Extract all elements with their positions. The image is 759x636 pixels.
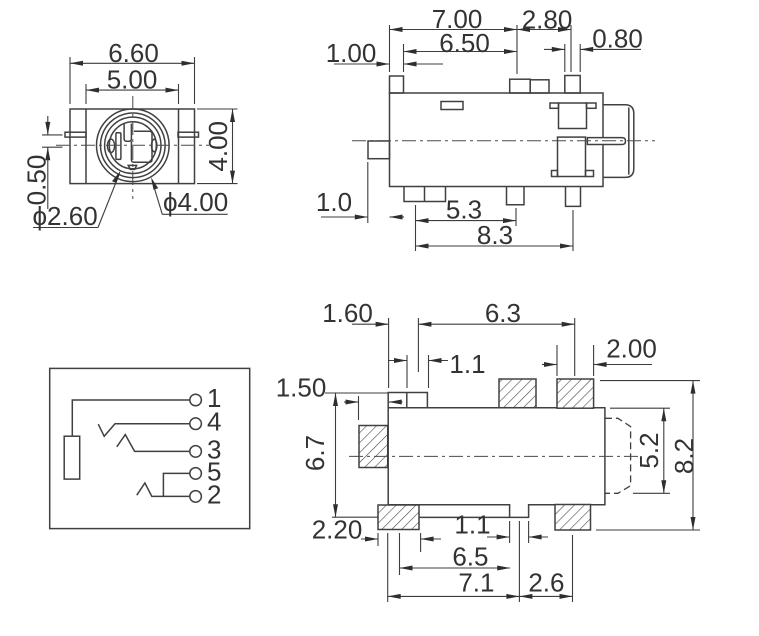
lower component left ear bbox=[552, 171, 558, 177]
dimension 6.5 bbox=[400, 533, 511, 575]
svg-text:ϕ2.60: ϕ2.60 bbox=[33, 201, 98, 231]
svg-text:6.50: 6.50 bbox=[439, 28, 490, 58]
svg-text:8.2: 8.2 bbox=[669, 438, 699, 474]
bottom right pad (hatched) bbox=[555, 505, 591, 531]
svg-text:2: 2 bbox=[207, 479, 221, 509]
pin 2 circle bbox=[190, 491, 202, 503]
svg-text:6.60: 6.60 bbox=[108, 38, 159, 68]
pin slot bbox=[587, 138, 625, 145]
dimension 8.3 bbox=[416, 210, 574, 251]
left protruding tab bbox=[368, 141, 390, 159]
top pad 1 (hatched) bbox=[499, 379, 536, 408]
inner top slot bbox=[124, 124, 131, 142]
inner left oval bbox=[107, 139, 114, 152]
svg-text:2.80: 2.80 bbox=[522, 5, 573, 35]
svg-text:4.00: 4.00 bbox=[203, 121, 233, 172]
dimension 5.00 bbox=[86, 65, 179, 104]
svg-text:6.3: 6.3 bbox=[485, 298, 521, 328]
dimension 2.80 bbox=[517, 5, 572, 73]
dimension 0.50 (vertical left) bbox=[22, 116, 63, 209]
inner small rectangle bbox=[441, 102, 463, 110]
bottom left pad (hatched) bbox=[378, 505, 419, 530]
svg-text:1.1: 1.1 bbox=[449, 349, 485, 379]
step inner horizontal bbox=[388, 407, 427, 409]
upper component right ear bbox=[587, 103, 597, 108]
svg-text:ϕ4.00: ϕ4.00 bbox=[163, 187, 228, 217]
jack circle 2 bbox=[101, 113, 166, 178]
svg-text:0.50: 0.50 bbox=[22, 155, 52, 206]
hidden barrel (dashed) bbox=[605, 418, 631, 493]
front view body rectangle bbox=[70, 109, 195, 184]
dimension 6.50 bbox=[404, 28, 518, 72]
schematic box bbox=[50, 368, 250, 528]
svg-text:1.00: 1.00 bbox=[326, 38, 377, 68]
inner left contact plate bbox=[116, 133, 121, 160]
wire pin4 with switch bbox=[98, 424, 190, 437]
side view centerline bbox=[349, 455, 638, 457]
wire pin3 with switch bbox=[117, 435, 190, 452]
front right side tab bbox=[178, 132, 199, 137]
top tab B bbox=[530, 80, 549, 93]
svg-text:1.0: 1.0 bbox=[316, 187, 352, 217]
bottom right pin tab bbox=[566, 187, 581, 207]
dimension 8.2 (vertical) bbox=[596, 381, 700, 530]
svg-text:2.6: 2.6 bbox=[528, 567, 564, 597]
lower hidden bottom line bbox=[419, 516, 510, 518]
dimension 1.1 (bottom) bbox=[454, 510, 548, 544]
wire pin2 with switch bbox=[137, 483, 190, 496]
dimension 2.20 bbox=[312, 515, 441, 553]
svg-text:7.1: 7.1 bbox=[458, 567, 494, 597]
upper component left ear bbox=[550, 103, 559, 108]
dimension 4.00 (vertical right) bbox=[197, 109, 238, 184]
pin 5 circle bbox=[190, 468, 202, 480]
front horizontal centerline bbox=[56, 144, 209, 146]
lower component right ear bbox=[586, 171, 594, 177]
barrel outline bbox=[603, 105, 634, 178]
inner bottom tab bbox=[128, 165, 136, 169]
left pad (hatched) bbox=[359, 426, 388, 468]
dimension 1.50 bbox=[276, 373, 403, 421]
top tab C bbox=[565, 76, 580, 94]
upper contact component bbox=[559, 103, 587, 129]
dimension 1.00 bbox=[326, 38, 443, 68]
svg-text:5.00: 5.00 bbox=[107, 65, 158, 95]
leader phi2.60 bbox=[33, 171, 121, 232]
leader phi4.00 bbox=[151, 177, 228, 217]
svg-text:1.1: 1.1 bbox=[454, 510, 490, 540]
dimension 6.3 bbox=[418, 298, 574, 376]
front vertical centerline bbox=[132, 96, 134, 199]
dimension 1.0 bbox=[316, 162, 404, 223]
wire pin5 bbox=[163, 473, 189, 496]
inner right oval bbox=[152, 139, 157, 152]
dimension 2.00 bbox=[542, 334, 657, 377]
dimension 1.60 bbox=[322, 298, 418, 388]
sleeve contact bar bbox=[64, 436, 80, 479]
svg-text:1.50: 1.50 bbox=[276, 373, 327, 403]
lower contact component bbox=[558, 137, 586, 176]
pin 1 circle bbox=[190, 394, 202, 406]
svg-text:4: 4 bbox=[207, 407, 221, 437]
top-left mounting tab bbox=[390, 76, 404, 93]
svg-text:2.00: 2.00 bbox=[606, 334, 657, 364]
bottom middle pin tab bbox=[507, 187, 525, 205]
bottom-left protrusion block bbox=[404, 187, 446, 202]
front body inner vertical line right bbox=[178, 109, 180, 184]
svg-text:0.80: 0.80 bbox=[592, 24, 643, 54]
pin 4 circle bbox=[190, 418, 202, 430]
bottom-left protrusion divider bbox=[424, 187, 426, 202]
pin 3 circle bbox=[190, 446, 202, 458]
front body inner vertical line left bbox=[85, 109, 87, 184]
dimension 7.1 bbox=[388, 521, 520, 602]
dimension 1.1 (top) bbox=[388, 349, 486, 388]
jack inner hole circle (phi 2.60) bbox=[109, 122, 156, 169]
front left side tab bbox=[65, 132, 86, 137]
top view body bbox=[390, 93, 604, 187]
svg-text:2.20: 2.20 bbox=[312, 515, 363, 545]
step inner vertical bbox=[406, 393, 408, 408]
dimension 5.3 bbox=[416, 195, 517, 251]
dimension 0.80 bbox=[544, 24, 643, 72]
dimension 7.00 bbox=[390, 4, 518, 74]
barrel inner chamfer line bbox=[628, 108, 630, 175]
jack bezel outer circle (phi 4.00) bbox=[97, 109, 170, 182]
top pad 2 (hatched) bbox=[557, 379, 594, 408]
top tab A bbox=[510, 79, 531, 93]
dimension 6.7 (vertical) bbox=[300, 393, 379, 517]
jack circle 3 bbox=[105, 117, 161, 173]
inner right contact plate bbox=[131, 131, 152, 162]
svg-text:1.60: 1.60 bbox=[322, 298, 373, 328]
svg-text:8.3: 8.3 bbox=[477, 220, 513, 250]
top view centerline bbox=[352, 140, 655, 142]
side view body outline bbox=[388, 393, 605, 518]
wire pin1 bbox=[72, 400, 190, 436]
dimension 6.60 bbox=[70, 38, 195, 104]
svg-text:6.7: 6.7 bbox=[300, 435, 330, 471]
dimension 2.6 bbox=[519, 535, 572, 602]
svg-text:5.2: 5.2 bbox=[634, 432, 664, 468]
dimension 5.2 (vertical) bbox=[610, 408, 670, 493]
